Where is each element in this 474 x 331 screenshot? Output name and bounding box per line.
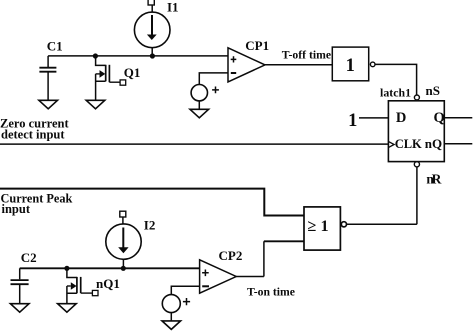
svg-text:CP2: CP2	[219, 248, 243, 263]
svg-text:≥ 1: ≥ 1	[308, 216, 329, 235]
svg-text:nS: nS	[426, 83, 440, 98]
svg-text:I2: I2	[144, 218, 156, 233]
svg-text:detect input: detect input	[1, 128, 65, 142]
svg-text:nQ: nQ	[425, 136, 442, 151]
svg-text:1: 1	[348, 111, 357, 131]
svg-text:1: 1	[346, 56, 355, 76]
svg-text:C2: C2	[21, 250, 37, 265]
svg-text:latch1: latch1	[380, 85, 411, 99]
svg-text:T-on time: T-on time	[247, 286, 295, 299]
svg-text:T-off time: T-off time	[282, 49, 331, 62]
svg-text:CP1: CP1	[245, 38, 269, 53]
svg-text:nQ1: nQ1	[96, 276, 120, 291]
svg-text:input: input	[2, 202, 31, 216]
svg-text:nR: nR	[426, 172, 441, 187]
svg-text:C1: C1	[47, 39, 63, 54]
svg-text:D: D	[396, 110, 406, 126]
svg-text:Q1: Q1	[124, 65, 141, 80]
svg-text:CLK: CLK	[395, 137, 422, 151]
svg-text:I1: I1	[167, 0, 179, 15]
svg-text:Q: Q	[434, 110, 445, 126]
